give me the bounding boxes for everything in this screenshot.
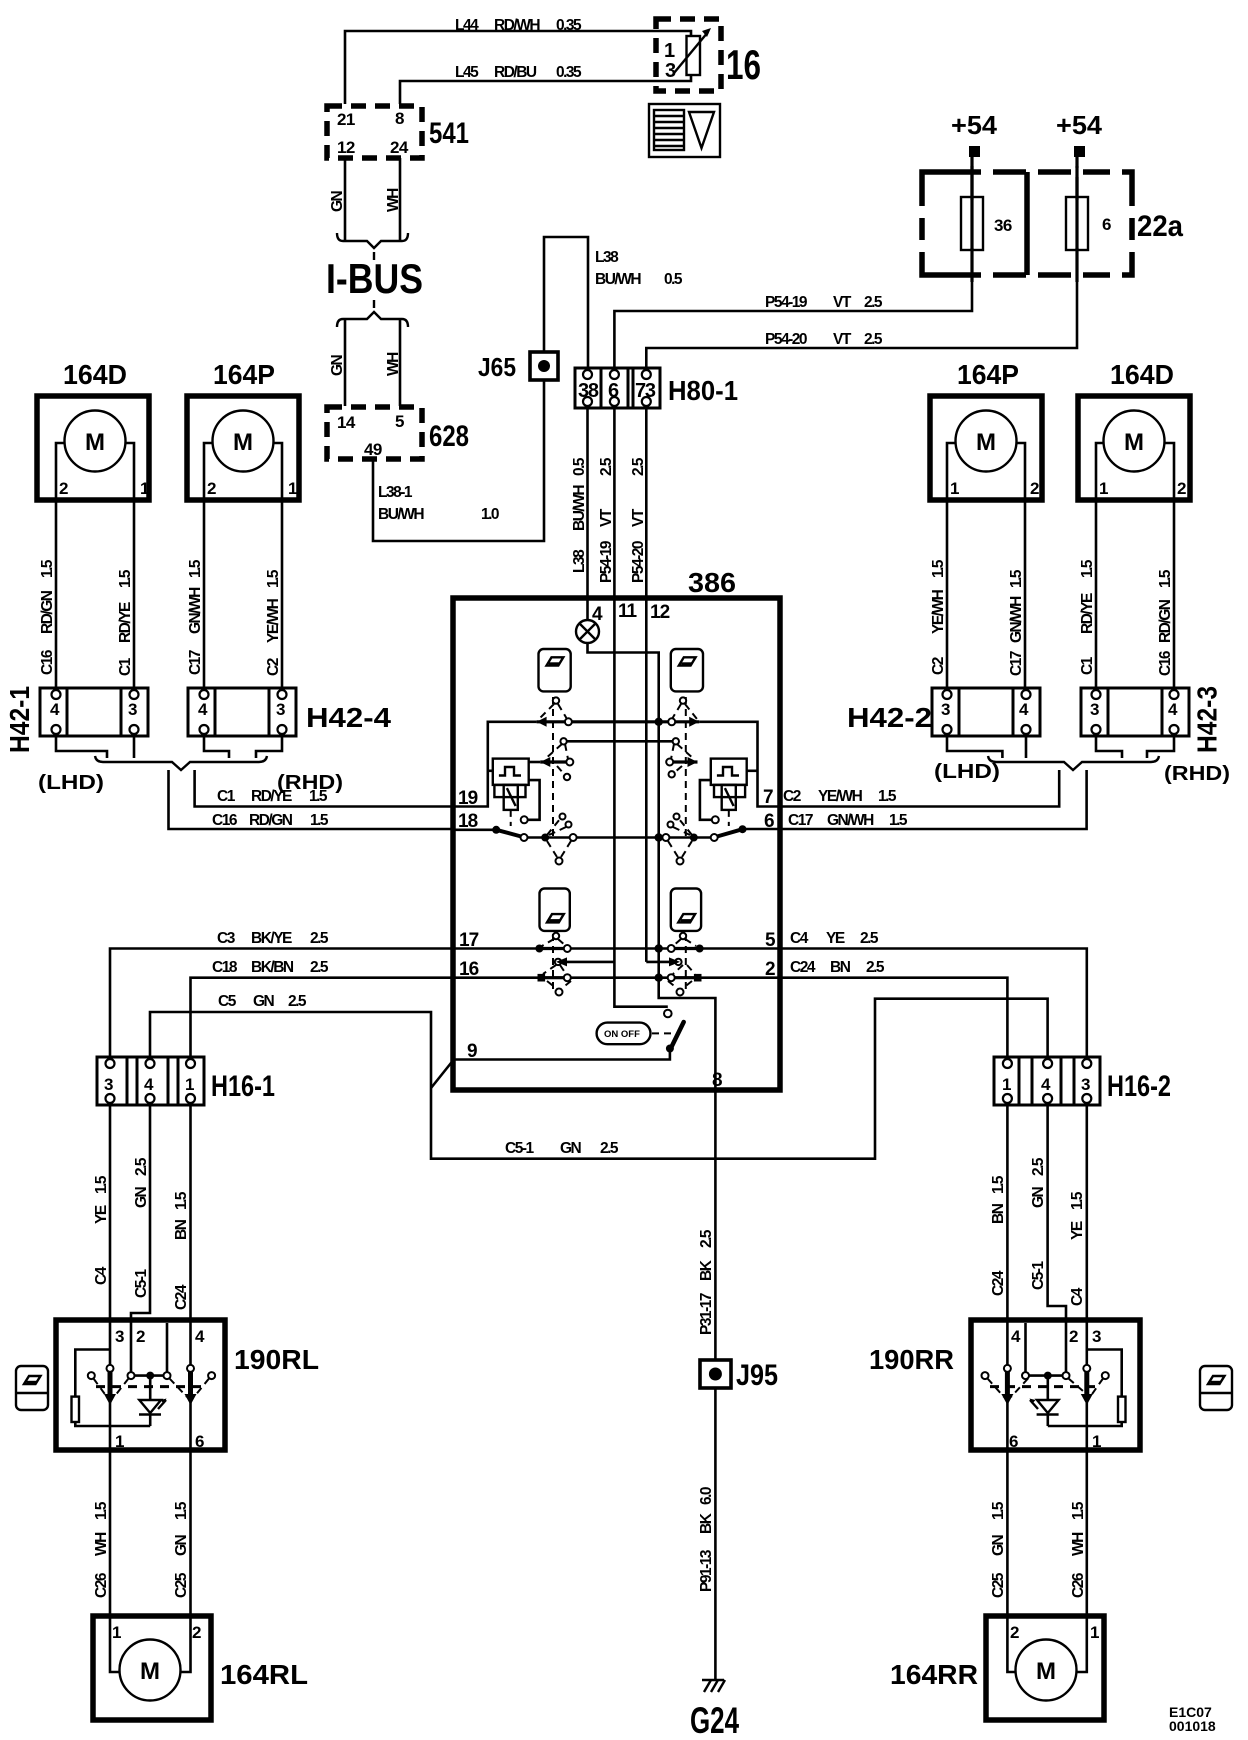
svg-text:3: 3: [941, 700, 950, 719]
190RR stub to top edge: [1024, 1323, 1027, 1372]
svg-text:BK/BN: BK/BN: [251, 959, 294, 976]
svg-text:GN/WH: GN/WH: [1008, 596, 1025, 643]
svg-text:WH: WH: [385, 352, 402, 376]
svg-text:2.5: 2.5: [864, 331, 883, 348]
motor 164P left circle: [213, 411, 274, 472]
svg-text:YE: YE: [93, 1205, 110, 1224]
svg-text:3: 3: [1090, 700, 1099, 719]
connector H16-1 box: [97, 1057, 204, 1105]
module 386 box: [453, 598, 780, 1090]
svg-text:1.5: 1.5: [1070, 1501, 1087, 1520]
svg-text:L38: L38: [571, 549, 588, 573]
wire 190RR pin6 to 164RR: [1006, 1450, 1009, 1616]
FL contact row pin19 feed: [453, 722, 537, 807]
svg-text:P54-19: P54-19: [598, 540, 615, 583]
svg-text:1.5: 1.5: [990, 1501, 1007, 1520]
wire H42-2 pin3 stub: [947, 736, 1002, 758]
dashed link driver right to blade: [728, 810, 730, 826]
svg-text:M: M: [1124, 429, 1144, 456]
svg-text:C16: C16: [1157, 650, 1174, 676]
window icon front-right: [671, 649, 703, 691]
svg-text:(LHD): (LHD): [934, 761, 1000, 783]
FR switch link dashed: [685, 697, 687, 836]
dashed triangles below row837 left: [547, 841, 557, 857]
connector H42-4 box: [188, 688, 296, 736]
svg-text:C17: C17: [187, 650, 204, 675]
svg-text:1.5: 1.5: [173, 1501, 190, 1520]
svg-text:1: 1: [1099, 479, 1108, 498]
svg-text:6: 6: [195, 1432, 204, 1451]
svg-text:190RL: 190RL: [234, 1344, 319, 1375]
190RL dashed diagonals: [94, 1379, 108, 1398]
svg-text:2.5: 2.5: [598, 457, 615, 476]
wire P54-19 VT from fuse 36 to H80-1 pin 6: [614, 250, 972, 369]
190RR left blade: [1006, 1322, 1009, 1365]
svg-text:12: 12: [337, 138, 355, 157]
FR row circle: [668, 718, 675, 725]
motor 164P right circle: [956, 411, 1017, 472]
motor 164RL stubs: [110, 1616, 120, 1672]
rheostat symbol in 16: [687, 36, 701, 75]
dimmer icon triangle: [689, 112, 714, 148]
wire resistor to pin3: [1087, 1350, 1122, 1397]
RL below dashed triangle: [547, 981, 557, 989]
motor 164RR stubs: [1007, 1616, 1015, 1672]
wire 190RR pin1 to 164RR: [1086, 1450, 1089, 1616]
contact circle of ON/OFF switch: [664, 1010, 672, 1018]
I-BUS upper bracket: [337, 233, 408, 248]
wire L38 BU/WH 0.5 to 386 pin 4: [586, 408, 589, 600]
wire H42-4 pin4 stub: [204, 736, 229, 758]
svg-text:M: M: [140, 1658, 160, 1685]
svg-text:1: 1: [1090, 1623, 1099, 1642]
svg-text:6.0: 6.0: [698, 1487, 715, 1505]
dashed link ON OFF to blade: [652, 1032, 671, 1034]
wire C5 GN row: [150, 999, 1048, 1159]
svg-text:C18: C18: [212, 959, 238, 976]
fuse 36: [961, 197, 983, 250]
ON/OFF blade: [671, 1022, 684, 1049]
svg-text:RD/GN: RD/GN: [1157, 599, 1174, 643]
motor 164D left box: [37, 396, 149, 500]
FL mid lower circle: [564, 774, 570, 780]
svg-text:C24: C24: [790, 959, 816, 976]
connector H42-1 box: [40, 688, 148, 736]
svg-text:C2: C2: [783, 788, 801, 805]
driver right wiring: [700, 780, 712, 820]
wire pin 12 internal: [645, 600, 648, 962]
motor 164RL circle: [120, 1640, 181, 1701]
svg-text:2.5: 2.5: [864, 294, 883, 311]
svg-text:2.5: 2.5: [698, 1229, 715, 1248]
190RL right blade: [189, 1322, 192, 1365]
svg-text:C1: C1: [217, 788, 236, 805]
wire 386 pin8 to J95: [714, 1090, 717, 1360]
svg-text:2: 2: [192, 1623, 201, 1642]
FR switch apex circle: [680, 697, 686, 703]
svg-text:RD/GN: RD/GN: [249, 812, 293, 829]
svg-text:C24: C24: [990, 1270, 1007, 1296]
svg-text:G24: G24: [690, 1700, 739, 1740]
svg-text:2: 2: [1069, 1327, 1078, 1346]
svg-text:H16-2: H16-2: [1107, 1070, 1171, 1103]
190RR center row: [1029, 1374, 1063, 1377]
pin 6 wire: [743, 828, 781, 831]
svg-text:3: 3: [1081, 1075, 1090, 1094]
svg-text:M: M: [976, 429, 996, 456]
svg-text:M: M: [1036, 1658, 1056, 1685]
FL switch dashed triangle: [539, 704, 554, 719]
rheostat arrow: [674, 32, 708, 73]
svg-text:6: 6: [1102, 215, 1111, 234]
svg-text:P54-20: P54-20: [765, 331, 807, 348]
+54 right terminal square: [1074, 146, 1085, 157]
motor driver right box: [714, 785, 745, 797]
svg-text:6: 6: [1009, 1432, 1018, 1451]
mid row front (pin11/12 feed row): [564, 740, 676, 743]
wire 190RL pin6 to 164RL: [189, 1450, 192, 1616]
switch pack 190RR box: [971, 1320, 1140, 1450]
wire pulse relay left input: [488, 769, 493, 772]
svg-text:6: 6: [764, 811, 774, 832]
svg-text:2.5: 2.5: [288, 993, 307, 1010]
svg-text:2.5: 2.5: [1030, 1157, 1047, 1176]
svg-text:C3: C3: [217, 930, 236, 947]
motor 164P right box: [930, 396, 1042, 500]
svg-text:1.0: 1.0: [481, 506, 499, 523]
RL switch link dashed: [552, 934, 554, 994]
fusebox 22a outer: [922, 172, 1132, 275]
brace left LHD/RHD: [95, 756, 267, 770]
svg-text:0.35: 0.35: [556, 64, 582, 81]
svg-text:GN: GN: [1030, 1186, 1047, 1208]
svg-text:C26: C26: [1070, 1572, 1087, 1598]
190RL LED: [149, 1376, 152, 1400]
wire L44 RD/WH: [345, 31, 691, 104]
svg-text:1: 1: [115, 1432, 124, 1451]
RL contact row: [539, 947, 699, 950]
svg-text:BK: BK: [698, 1512, 715, 1534]
svg-text:WH: WH: [385, 188, 402, 212]
svg-text:2: 2: [1010, 1623, 1019, 1642]
wire pulse relay right input: [747, 769, 758, 772]
svg-text:C2: C2: [265, 658, 282, 676]
svg-text:C25: C25: [173, 1572, 190, 1598]
svg-text:0.5: 0.5: [571, 457, 588, 476]
svg-text:C4: C4: [1069, 1287, 1086, 1306]
window icon 190RR: [1200, 1366, 1232, 1410]
wire brace to C2 row: [780, 770, 1059, 807]
motor 164P right wires: [947, 443, 956, 688]
svg-text:C16: C16: [212, 812, 238, 829]
190RL pin2 wire: [130, 1322, 133, 1372]
svg-text:164P: 164P: [213, 359, 275, 390]
svg-text:628: 628: [429, 420, 469, 453]
svg-text:73: 73: [635, 380, 656, 402]
I-BUS lower bracket: [337, 312, 408, 327]
pin 2 wire: [700, 976, 780, 979]
svg-text:J95: J95: [736, 1359, 778, 1392]
wire pulse relay left output: [529, 761, 541, 764]
wire WH from 541 pin 24: [399, 158, 402, 241]
svg-text:2: 2: [59, 479, 68, 498]
motor 164RR circle: [1016, 1640, 1077, 1701]
190RL left blade: [109, 1322, 112, 1365]
svg-text:541: 541: [429, 117, 469, 150]
svg-text:2.5: 2.5: [310, 959, 329, 976]
wire GN to 628 pin 14: [344, 319, 347, 406]
wire J95 to ground: [714, 1388, 717, 1680]
svg-text:M: M: [85, 429, 105, 456]
190RR dashed link row: [990, 1385, 1100, 1388]
FR mid contact row: [670, 760, 698, 763]
RR mid row to pin 12: [646, 961, 678, 964]
pulse relay right box: [711, 759, 747, 785]
RL lower dashed triangle: [543, 965, 556, 974]
svg-text:1.5: 1.5: [878, 788, 897, 805]
svg-text:3: 3: [115, 1327, 124, 1346]
svg-text:P91-13: P91-13: [698, 1549, 715, 1592]
mid row apex circle left: [560, 738, 566, 744]
svg-text:2: 2: [136, 1327, 145, 1346]
svg-text:17: 17: [459, 930, 479, 951]
svg-text:0.5: 0.5: [664, 271, 683, 288]
svg-text:C17: C17: [1008, 651, 1025, 676]
svg-text:RD/WH: RD/WH: [494, 17, 540, 34]
svg-text:8: 8: [395, 109, 404, 128]
ground symbol G24: [702, 1679, 724, 1681]
junction J95 box: [700, 1360, 731, 1388]
motor 164D right box: [1078, 396, 1190, 500]
fuse 6: [1066, 197, 1088, 250]
svg-text:16: 16: [726, 41, 761, 88]
FR switch dashed triangle: [672, 704, 681, 719]
svg-text:RD/BU: RD/BU: [494, 64, 537, 81]
wire H42-4 pin3 stub: [256, 736, 282, 758]
connector H16-2 box: [994, 1057, 1100, 1105]
svg-text:1.5: 1.5: [930, 559, 947, 578]
svg-text:C5-1: C5-1: [133, 1269, 150, 1298]
switch pack 190RL box: [56, 1320, 225, 1450]
svg-text:BK: BK: [698, 1259, 715, 1281]
wire brace to C1 row: [195, 770, 453, 807]
svg-text:1.5: 1.5: [187, 559, 204, 578]
svg-text:L38-1: L38-1: [378, 484, 413, 501]
svg-text:H42-4: H42-4: [306, 702, 391, 733]
svg-text:3: 3: [128, 700, 137, 719]
FL mid contact row: [540, 760, 570, 763]
svg-text:18: 18: [458, 811, 478, 832]
svg-text:YE/WH: YE/WH: [930, 589, 947, 634]
connector H80-1 box: [575, 368, 660, 408]
FL mid dashed triangle: [545, 744, 562, 759]
wire H42-3 pin4 stub: [1147, 736, 1174, 758]
wire H16-2 pin3 to 190RR pin3: [1086, 1105, 1089, 1322]
wire GN from 541 pin 12: [344, 158, 347, 241]
svg-text:2.5: 2.5: [630, 457, 647, 476]
wire H42-1 pin4 stub: [56, 736, 107, 758]
svg-text:C25: C25: [990, 1572, 1007, 1598]
wire pin 4 to lamp: [586, 600, 589, 620]
svg-text:1: 1: [185, 1075, 194, 1094]
svg-text:12: 12: [650, 602, 670, 623]
dashed link driver to blade: [510, 810, 512, 826]
wire brace to C16 row: [169, 770, 454, 829]
svg-text:164D: 164D: [1110, 359, 1174, 390]
lamp symbol: [576, 620, 599, 643]
wire brace to C17 row: [780, 770, 1087, 829]
svg-text:BN: BN: [830, 959, 851, 976]
svg-text:C1: C1: [117, 657, 134, 676]
svg-text:164RR: 164RR: [890, 1659, 978, 1690]
svg-text:(LHD): (LHD): [38, 772, 104, 794]
motor 164D right circle: [1104, 411, 1165, 472]
svg-text:19: 19: [458, 788, 478, 809]
svg-text:22a: 22a: [1137, 210, 1183, 243]
svg-text:(RHD): (RHD): [1164, 763, 1230, 785]
svg-text:5: 5: [395, 412, 404, 431]
FL row circle left: [565, 718, 572, 725]
svg-text:4: 4: [198, 700, 208, 719]
svg-text:49: 49: [364, 440, 382, 459]
svg-text:GN/WH: GN/WH: [187, 587, 204, 634]
svg-text:1.5: 1.5: [1008, 569, 1025, 588]
+54 left terminal square: [969, 146, 980, 157]
svg-text:C5-1: C5-1: [1030, 1261, 1047, 1290]
svg-text:1.5: 1.5: [93, 1175, 110, 1194]
RR lower dashed triangle: [673, 965, 683, 974]
190RR LED: [1047, 1376, 1050, 1400]
svg-text:1: 1: [664, 40, 675, 62]
svg-text:H42-2: H42-2: [847, 702, 932, 733]
wire C24 BN row right: [780, 978, 1007, 1057]
wire L38-1 BU/WH from 628 pin 49 to J65: [373, 237, 588, 541]
wire H16-1 pin1 to 190RL pin4: [189, 1105, 192, 1322]
svg-text:C4: C4: [93, 1266, 110, 1285]
pin 17 row: [453, 947, 539, 950]
190RR dashed diagonals: [988, 1379, 1005, 1398]
I-BUS center dashes: [373, 252, 375, 260]
pin 5 wire: [700, 947, 780, 950]
window icon rear-left: [540, 889, 570, 931]
window icon 190RL: [16, 1366, 48, 1410]
svg-text:9: 9: [467, 1041, 477, 1062]
wire +54 to fuse 6: [1075, 157, 1078, 198]
motor 164P left wires: [204, 443, 213, 688]
svg-text:VT: VT: [598, 508, 615, 527]
svg-text:3: 3: [104, 1075, 113, 1094]
svg-text:C17: C17: [788, 812, 813, 829]
svg-text:H42-3: H42-3: [1192, 686, 1223, 753]
sensor 16 dashed box: [656, 19, 721, 91]
RL switch apex circle: [553, 933, 559, 939]
svg-text:GN: GN: [329, 354, 346, 376]
FL row left arrowhead: [537, 717, 547, 727]
FL contact row: [537, 720, 700, 723]
svg-text:3: 3: [1092, 1327, 1101, 1346]
svg-text:BU/WH: BU/WH: [378, 506, 424, 523]
svg-text:VT: VT: [630, 508, 647, 527]
svg-text:38: 38: [578, 380, 599, 402]
svg-text:2: 2: [207, 479, 216, 498]
svg-text:YE/WH: YE/WH: [818, 788, 863, 805]
svg-text:ON OFF: ON OFF: [604, 1029, 640, 1040]
svg-text:4: 4: [1041, 1075, 1051, 1094]
wire resistor to pin3: [75, 1350, 110, 1397]
blade pin18: [492, 826, 500, 834]
svg-text:6: 6: [608, 380, 619, 402]
FR row right arrowhead: [689, 717, 699, 727]
svg-text:RD/YE: RD/YE: [251, 788, 292, 805]
pulse relay left box: [493, 759, 529, 785]
wire FR contact to pin 7: [699, 722, 780, 807]
FR mid lower circle: [669, 771, 675, 777]
junction dot ground bus row837: [655, 833, 663, 841]
svg-text:P54-19: P54-19: [765, 294, 808, 311]
FL switch apex circle: [553, 697, 559, 703]
svg-text:GN: GN: [133, 1186, 150, 1208]
svg-text:1: 1: [950, 479, 959, 498]
svg-text:H16-1: H16-1: [211, 1070, 275, 1103]
svg-text:BU/WH: BU/WH: [595, 271, 641, 288]
svg-text:2: 2: [1030, 479, 1039, 498]
svg-text:C5-1: C5-1: [505, 1140, 534, 1157]
svg-text:1: 1: [112, 1623, 121, 1642]
svg-text:C4: C4: [790, 930, 809, 947]
svg-text:190RR: 190RR: [869, 1344, 954, 1375]
resistor 190RR: [1118, 1397, 1126, 1422]
window icon front-left: [539, 649, 571, 691]
motor 164D right wires: [1096, 443, 1104, 688]
svg-text:1.5: 1.5: [265, 569, 282, 588]
svg-text:P54-20: P54-20: [630, 541, 647, 583]
svg-text:VT: VT: [833, 331, 852, 348]
FR mid dashed triangle: [677, 744, 694, 759]
svg-text:4: 4: [50, 700, 60, 719]
pin 18 wire: [453, 828, 494, 831]
svg-text:YE: YE: [826, 930, 845, 947]
svg-text:YE: YE: [1069, 1221, 1086, 1240]
dimmer icon hatched rect: [654, 110, 684, 150]
svg-text:RD/YE: RD/YE: [117, 602, 134, 643]
svg-text:3: 3: [276, 700, 285, 719]
190RL center row: [135, 1374, 164, 1377]
svg-text:1.5: 1.5: [117, 569, 134, 588]
brace right LHD/RHD: [988, 756, 1159, 770]
svg-text:21: 21: [337, 110, 355, 129]
fusebox 22a divider: [1024, 172, 1030, 275]
svg-text:L44: L44: [455, 17, 479, 34]
wire driver output to contact: [528, 780, 540, 820]
svg-text:C1: C1: [1079, 656, 1096, 675]
svg-text:RD/YE: RD/YE: [1079, 593, 1096, 634]
wire restrokes through 22a border: [970, 166, 973, 200]
svg-text:2.5: 2.5: [133, 1157, 150, 1176]
svg-text:1.5: 1.5: [173, 1191, 190, 1210]
svg-text:L38: L38: [595, 249, 619, 266]
svg-text:L45: L45: [455, 64, 479, 81]
svg-text:2: 2: [765, 959, 775, 980]
svg-text:1: 1: [288, 479, 297, 498]
svg-text:2.5: 2.5: [310, 930, 329, 947]
wire lamp to ground bus: [588, 643, 716, 1090]
FL switch link dashed: [552, 697, 554, 836]
motor 164RL box: [93, 1616, 211, 1720]
wire H42-3 pin3 stub: [1096, 736, 1122, 758]
svg-text:1.5: 1.5: [39, 559, 56, 578]
svg-text:164RL: 164RL: [220, 1659, 308, 1690]
mid row apex circle right: [673, 738, 679, 744]
